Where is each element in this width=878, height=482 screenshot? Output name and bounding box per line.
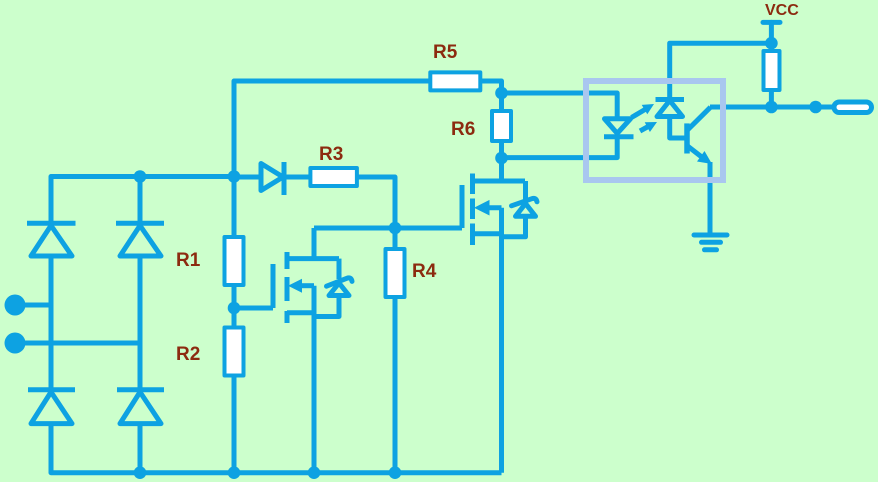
node dot rail 3 [308,466,321,479]
svg-text:R3: R3 [319,144,343,165]
drain bar [287,256,339,261]
node B dot [495,87,508,100]
wire R5 to node B [480,81,501,93]
svg-text:VCC: VCC [765,2,799,19]
wire R4 to bottom rail [393,297,398,473]
opto emission arrow 1 [632,104,655,118]
wire node B down to R6 [499,93,504,111]
node dot bridge top left [134,170,147,183]
node dot rail 4 [389,466,402,479]
wire right bridge vertical middle [138,256,143,390]
optocoupler U1 box [586,81,723,180]
svg-text:R2: R2 [176,344,200,365]
zener Z2 (Q2 body diode) [502,181,538,237]
channel dashes [470,174,475,195]
diode D2 top-right [116,223,164,256]
transistor Q1 N-MOSFET [234,228,339,473]
svg-text:R5: R5 [433,42,458,63]
resistor R2 [225,328,244,376]
drain lead up [312,228,317,259]
diode D5 [234,162,310,195]
resistor R4 [386,249,405,297]
opto LED [604,119,634,137]
node dot rail 2 [228,466,241,479]
emitter lead down [708,162,713,234]
resistor R3 [310,168,357,186]
drain bar [473,179,526,184]
node dot rail 1 [134,466,147,479]
wire node C horizontal (Q1 drain to Q2 gate) [314,226,462,231]
wire gate lead Q1 [234,306,273,311]
VCC symbol [763,22,780,43]
svg-text:R4: R4 [412,261,437,282]
resistor R1 [225,237,244,285]
diode D3 bottom-left [28,390,75,424]
channel dashes [285,252,290,269]
photodiode PD (opto output diode) [656,43,772,138]
wire R1 to R2 [232,285,237,328]
source lead down to rail [312,286,317,473]
ground [694,235,727,250]
resistor R5 [430,72,480,90]
svg-text:R6: R6 [451,119,475,140]
wire left bridge vertical middle [49,256,54,390]
wire right bridge vertical lower [138,424,143,473]
wire left bridge vertical lower + bottom rail [51,424,502,473]
wire node A vertical to R1 [232,177,237,238]
input terminal 2 [5,333,26,354]
resistor R6 [492,111,511,141]
node dot VCC top [765,37,778,50]
svg-text:R1: R1 [176,250,201,271]
transistor Q3 (opto NPN) [687,107,712,234]
body arrow [485,205,502,210]
source lead down to rail [499,208,504,473]
node A dot [228,170,241,183]
node dot R1-R2 junction [228,302,241,315]
wire node D to LED cathode [502,137,618,158]
node D dot [495,152,508,165]
wire collector to output [710,105,834,110]
gate line [271,264,276,308]
diode D1 top-left [27,223,76,256]
drain lead up [499,158,504,181]
gate line [460,185,465,228]
wire R2 to bottom rail [232,376,237,473]
body arrow [299,283,314,288]
wire node A up and across to R5 [234,81,430,177]
diode D4 bottom-right [117,390,164,424]
zener Z1 (Q1 body diode) [314,259,352,317]
wire node C to R4 [393,228,398,249]
source bar [473,231,502,236]
opto emission arrow 2 [640,122,657,132]
wire R7 to output node [769,90,774,107]
wire top rail of bridge [51,177,234,224]
node dot output mid [809,101,822,114]
resistor R7 (pull-up) [764,51,780,90]
source bar [287,310,314,315]
transistor Q2 N-MOSFET [462,158,525,473]
wire R3 to node C [357,177,395,228]
wire VCC to R7 [769,43,774,51]
node dot output left [765,101,778,114]
input terminal 1 [5,295,26,316]
wire input terminal 2 lead [22,341,140,346]
output terminal pill [834,102,872,113]
node C dot [389,222,402,235]
wire right bridge vertical upper [138,177,143,224]
wire input terminal 1 lead [22,303,51,308]
wire R6 to node D [499,141,504,158]
wire node B to LED anode [502,93,618,119]
